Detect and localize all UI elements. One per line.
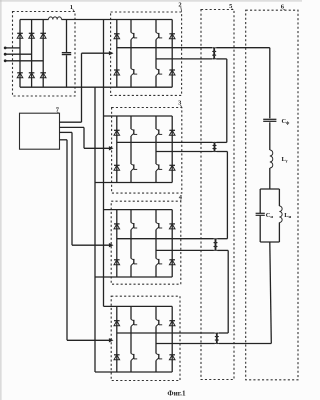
svg-text:Фиг.1: Фиг.1 — [167, 389, 186, 397]
svg-text:1: 1 — [70, 4, 73, 11]
